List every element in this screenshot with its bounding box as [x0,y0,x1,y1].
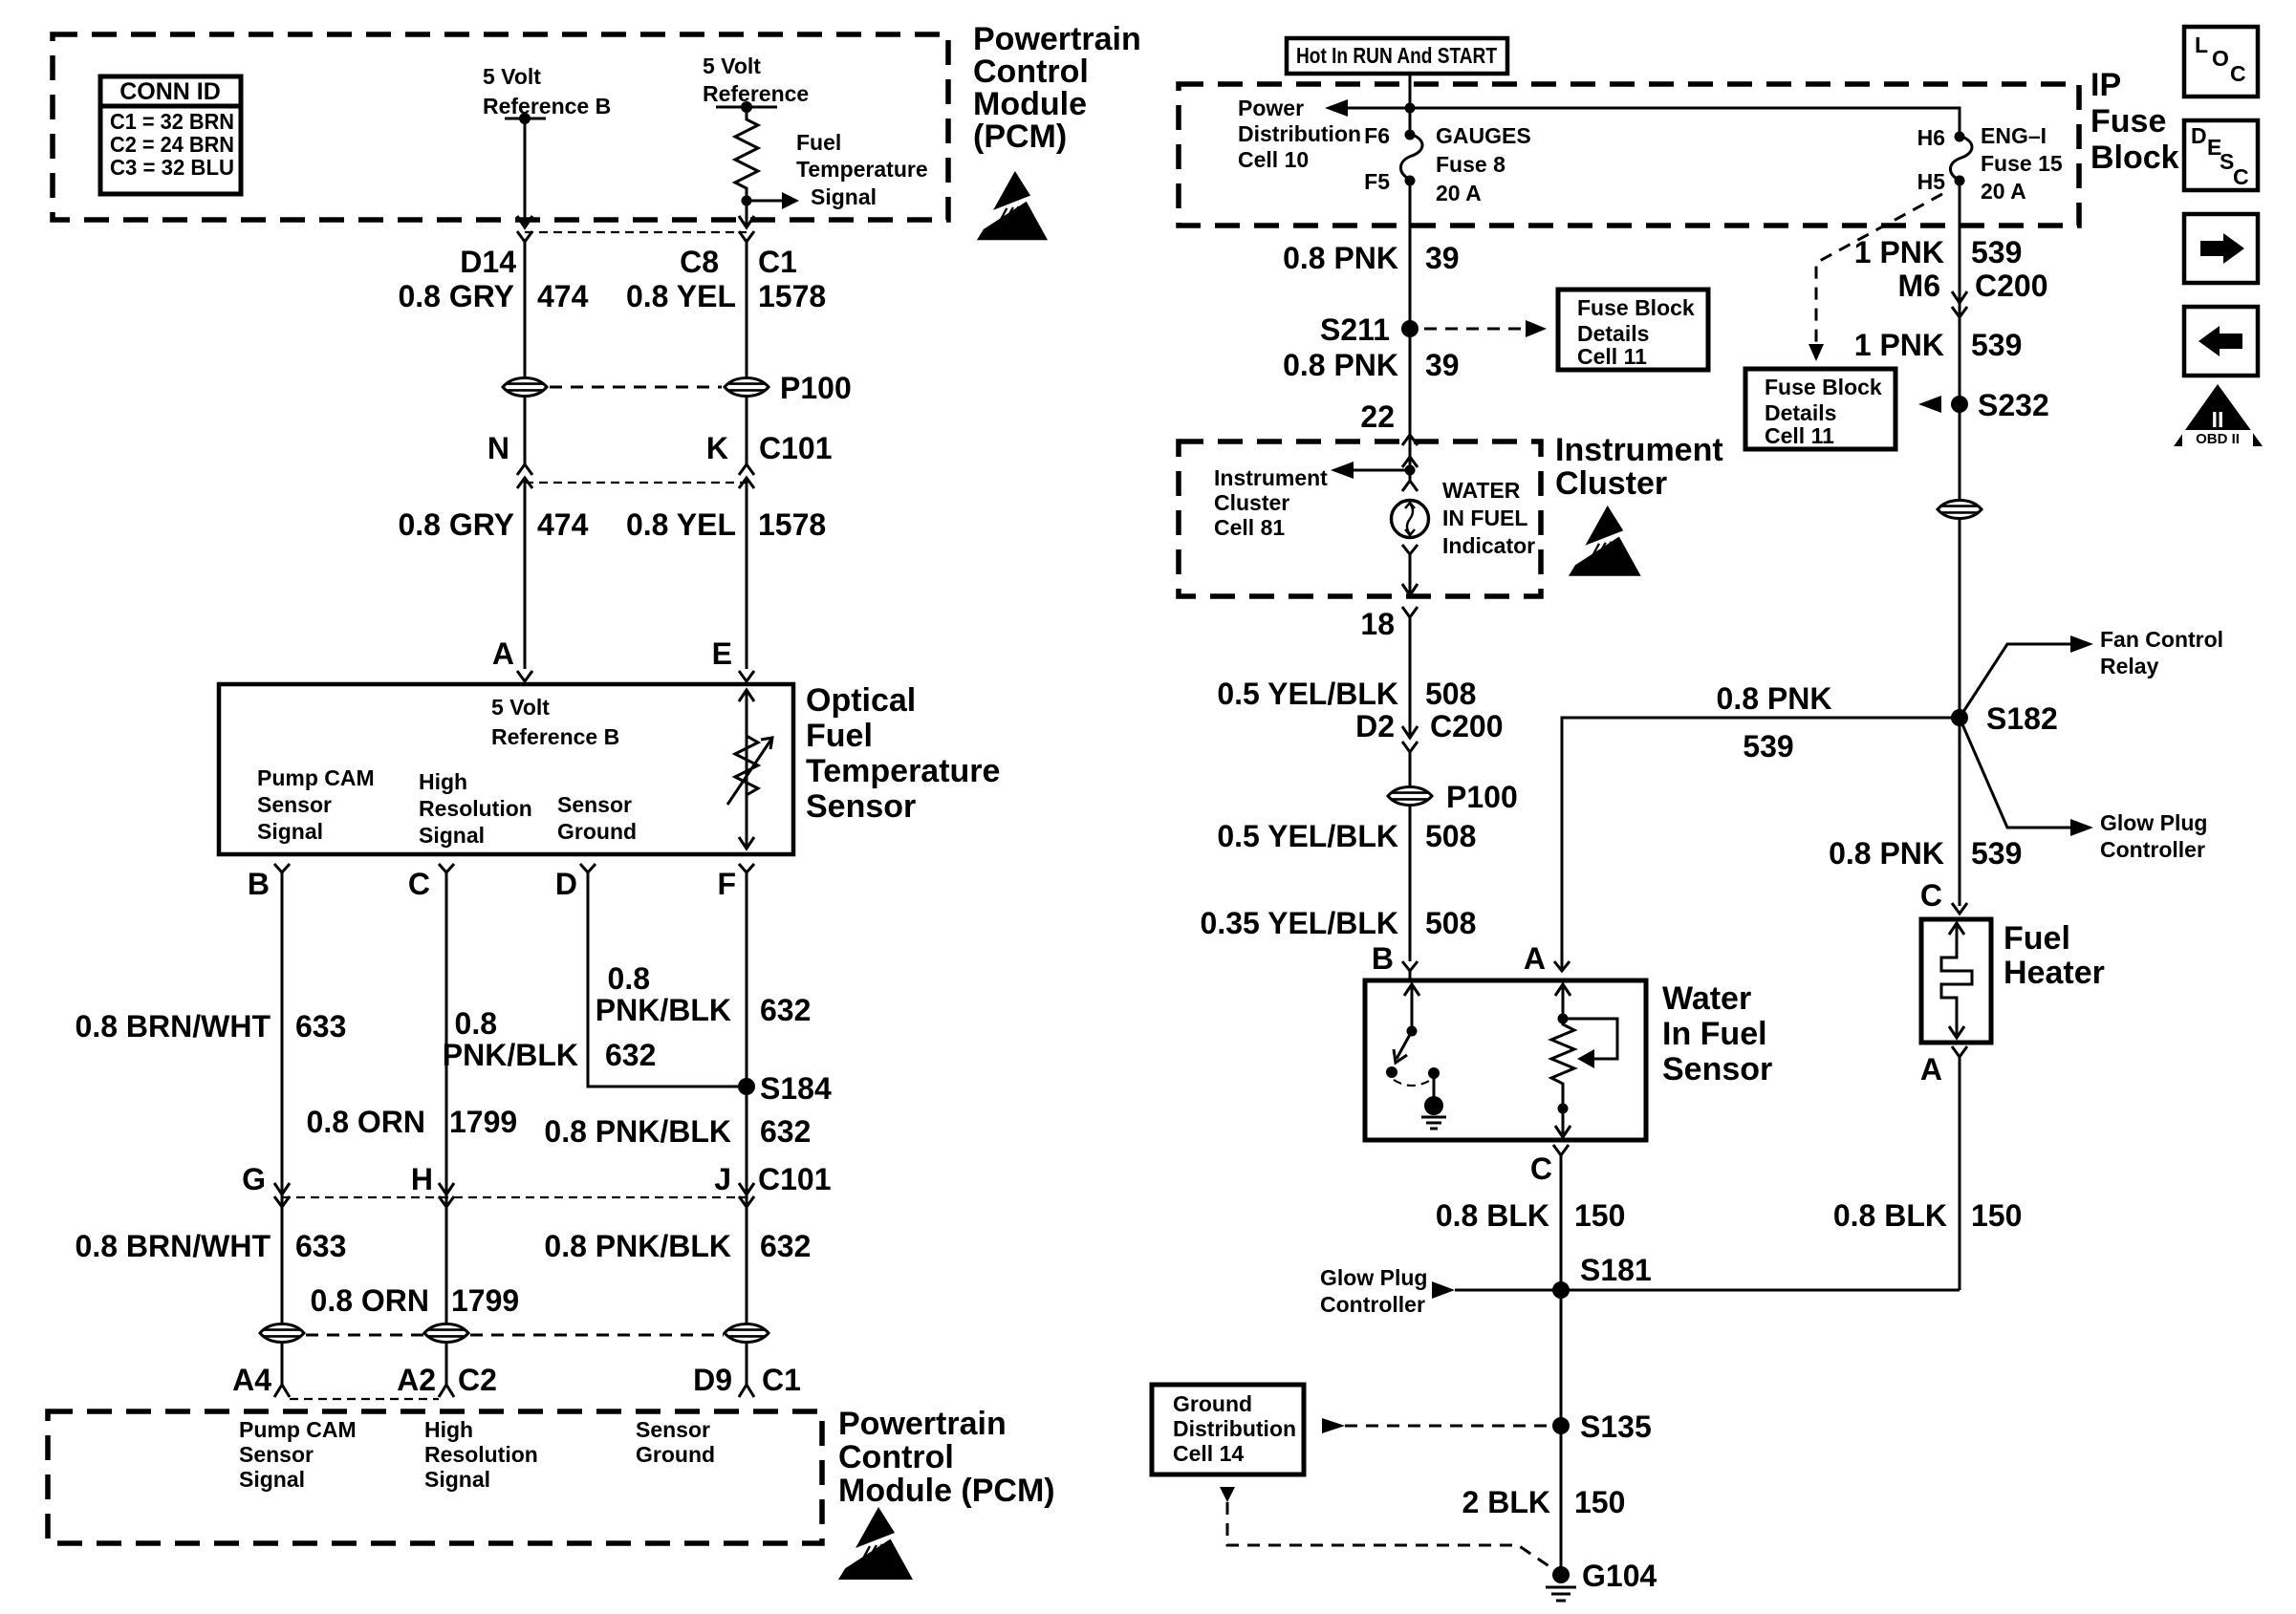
pin C (fuel heater) [1952,903,1967,914]
Fuse Block Details Cell 11 box (1) [1558,290,1708,370]
svg-text:Fan Control: Fan Control [2100,627,2223,652]
connector lens (PNK) [1938,501,1982,519]
svg-text:5 Volt: 5 Volt [491,695,550,720]
connector C101 pins N/K [517,464,532,475]
splice S181 [1552,1281,1570,1299]
svg-text:Details: Details [1577,321,1649,346]
svg-text:N: N [487,431,509,465]
ground distribution dashed drop [1220,1487,1235,1502]
svg-text:Signal: Signal [424,1467,490,1492]
svg-text:II: II [2212,407,2224,432]
connector lens A4 [260,1324,304,1343]
svg-text:High: High [419,769,467,794]
svg-text:539: 539 [1971,836,2022,871]
svg-text:Fuse Block: Fuse Block [1577,295,1695,320]
svg-text:Water: Water [1662,980,1751,1017]
svg-text:ENG–I: ENG–I [1981,123,2047,148]
pins A2/C2 [439,1385,454,1397]
svg-text:474: 474 [537,279,589,313]
svg-text:CONN ID: CONN ID [119,78,221,105]
svg-text:539: 539 [1971,328,2022,362]
connector C101 pins G/H/J [274,1183,290,1194]
label: Instrument Cluster Cell 81 [1214,465,1328,540]
svg-text:Fuse 15: Fuse 15 [1981,151,2063,176]
svg-text:20 A: 20 A [1436,181,1482,205]
svg-text:Ground: Ground [1173,1391,1252,1416]
WIF internal sense resistor [1551,984,1617,1137]
svg-text:0.8 GRY: 0.8 GRY [398,507,514,542]
svg-text:A4: A4 [232,1363,271,1397]
svg-text:H6: H6 [1917,125,1945,150]
svg-text:0.8 YEL: 0.8 YEL [626,507,736,542]
svg-text:Signal: Signal [257,819,323,844]
svg-text:39: 39 [1425,241,1460,275]
svg-text:Cell 10: Cell 10 [1238,147,1309,172]
PCM bottom dashed box [48,1411,822,1543]
water in fuel indicator lamp [1392,501,1429,538]
pin 18 [1402,607,1418,617]
svg-text:A: A [492,636,514,671]
svg-text:D9: D9 [693,1363,732,1397]
svg-text:1 PNK: 1 PNK [1854,328,1944,362]
LOC legend box [2184,27,2258,97]
wire: 0.5 YEL/BLK 508 (mid) [1409,805,1412,961]
svg-text:508: 508 [1425,677,1476,711]
svg-text:39: 39 [1425,348,1460,382]
pin A4 [274,1385,290,1397]
svg-text:Sensor: Sensor [806,788,916,825]
arrow to Power Distribution [1325,99,1348,117]
pins D9/C1 [739,1385,754,1397]
svg-text:S181: S181 [1580,1253,1652,1287]
svg-text:C3 = 32 BLU: C3 = 32 BLU [110,155,234,180]
svg-text:IP: IP [2090,67,2121,103]
connector C200 pin M6 [1952,291,1967,303]
instrument cluster big label [1555,432,1723,502]
svg-text:Fuse 8: Fuse 8 [1436,152,1505,177]
resistor: fuel temp sense (in PCM) [735,107,758,227]
wire: YEL to C101 [746,396,748,464]
connector P100 (right) [1388,787,1432,806]
svg-text:0.8: 0.8 [608,961,650,996]
svg-text:Relay: Relay [2100,654,2159,678]
svg-text:C200: C200 [1430,709,1504,743]
svg-text:Details: Details [1765,400,1836,425]
svg-text:Optical: Optical [806,682,916,719]
fuse 15 ENG-I (H6-H5) [1917,123,2063,204]
svg-text:S211: S211 [1320,312,1390,347]
dashed link at PCM pins [290,1398,439,1400]
label: Power Distribution Cell 10 [1238,96,1361,172]
svg-text:J: J [714,1162,731,1196]
svg-text:1799: 1799 [451,1283,519,1318]
svg-text:M6: M6 [1898,269,1940,303]
water in fuel sensor box [1365,980,1646,1140]
dashed arrow to fuse block details [1424,328,1527,331]
svg-text:Fuel: Fuel [806,718,873,754]
svg-text:Distribution: Distribution [1238,121,1361,146]
fuse 8 GAUGES (F6-F5) [1364,123,1531,205]
svg-text:0.8 BRN/WHT: 0.8 BRN/WHT [76,1229,271,1263]
svg-text:P100: P100 [1446,780,1518,814]
splice S135 [1552,1417,1570,1434]
svg-text:Reference B: Reference B [491,724,619,749]
splice S232 [1951,396,1968,413]
wire: 5V ref B inside PCM [524,118,527,227]
svg-text:Signal: Signal [239,1467,305,1492]
svg-text:Cluster: Cluster [1214,490,1289,515]
svg-text:150: 150 [1574,1198,1625,1233]
PCM bottom name label [838,1406,1055,1509]
svg-text:0.8 PNK: 0.8 PNK [1829,836,1944,871]
svg-text:Powertrain: Powertrain [838,1406,1007,1442]
svg-text:1578: 1578 [758,279,826,313]
svg-text:Glow Plug: Glow Plug [2100,810,2207,835]
svg-text:508: 508 [1425,906,1476,940]
wire: 0.8 GRY 474 (upper) [524,242,527,378]
svg-text:WATER: WATER [1442,478,1521,503]
wire: 0.8 PNK 39 (upper) [1409,181,1412,464]
svg-text:Cluster: Cluster [1555,465,1667,502]
svg-text:S135: S135 [1580,1410,1652,1444]
svg-text:Controller: Controller [2100,837,2205,862]
wire: S181 to fuel heater return [1455,1289,1960,1292]
pin F [739,864,754,872]
wire: D sensor ground branch [588,872,738,1087]
WIF sensor name label [1662,980,1772,1087]
wire: hot feed into fuse block [1409,74,1412,135]
svg-text:D: D [2191,123,2207,148]
wire to P100 [1409,752,1412,787]
svg-text:Power: Power [1238,96,1304,120]
wire: C high resolution signal [445,872,448,1324]
fuel heater box [1921,919,1991,1043]
svg-text:508: 508 [1425,819,1476,853]
svg-text:P100: P100 [780,371,852,405]
svg-text:Sensor: Sensor [557,792,632,817]
svg-text:632: 632 [760,1229,811,1263]
label: WATER IN FUEL Indicator [1442,478,1535,558]
pin B (WIF sensor) [1402,961,1418,971]
arrow from Glow Plug Controller [1432,1281,1455,1299]
Hot In RUN And START box [1287,38,1507,74]
svg-text:5 Volt: 5 Volt [483,64,541,89]
svg-text:Reference B: Reference B [483,94,611,118]
svg-text:PNK/BLK: PNK/BLK [443,1038,578,1072]
svg-text:0.8 PNK/BLK: 0.8 PNK/BLK [544,1114,731,1149]
svg-text:K: K [706,431,728,465]
wire: 539 down to S182 [1959,518,1961,906]
junction node on bus [1405,103,1416,114]
ESD symbol (top PCM) [972,171,1048,240]
connector into cluster [1402,435,1418,445]
junction + arrow to Instrument Cluster cell [1405,465,1416,476]
wire: 0.8 BLK 150 (left) [1560,1155,1563,1575]
connector P100 (left pair) [503,378,547,397]
svg-text:20 A: 20 A [1981,179,2026,204]
svg-text:S232: S232 [1978,388,2049,422]
svg-text:Resolution: Resolution [419,796,532,821]
svg-text:C8: C8 [680,245,719,279]
svg-text:C1 = 32 BRN: C1 = 32 BRN [110,109,234,134]
svg-text:A2: A2 [397,1363,436,1397]
WIF internal switch [1386,984,1446,1129]
svg-text:0.8: 0.8 [455,1006,497,1041]
wire: 0.5 YEL/BLK 508 [1409,617,1412,736]
svg-text:E: E [712,636,732,671]
pin C (WIF sensor) [1553,1145,1569,1155]
svg-text:L: L [2195,32,2208,57]
svg-text:0.8 GRY: 0.8 GRY [398,279,514,313]
connector lens A2/C2 [424,1324,468,1343]
svg-text:Block: Block [2090,140,2179,176]
svg-text:A: A [1920,1052,1942,1087]
splice S184 [738,1078,755,1095]
fuel heater name label [2004,920,2105,991]
svg-text:150: 150 [1971,1198,2022,1233]
svg-text:Cell 14: Cell 14 [1173,1441,1244,1466]
wire: 0.8 YEL 1578 (lower) [746,478,748,669]
svg-text:Resolution: Resolution [424,1442,538,1467]
svg-text:B: B [248,867,270,901]
svg-text:Hot In RUN And START: Hot In RUN And START [1296,43,1497,68]
svg-text:5 Volt: 5 Volt [703,54,761,78]
wire: 0.8 YEL 1578 (upper) [746,242,748,378]
svg-text:632: 632 [605,1038,656,1072]
svg-text:Control: Control [973,54,1089,90]
svg-text:Temperature: Temperature [796,157,928,182]
svg-text:O: O [2212,46,2229,71]
svg-text:0.8 YEL: 0.8 YEL [626,279,736,313]
svg-text:F6: F6 [1364,123,1390,148]
node: Fuel Temperature Signal [742,130,928,209]
wire: feed bus to ENG-I fuse [1329,108,1960,135]
wire stubs to PCM pins [281,1342,284,1385]
svg-text:In Fuel: In Fuel [1662,1016,1767,1052]
svg-text:Cell 11: Cell 11 [1577,344,1647,369]
svg-text:D2: D2 [1355,709,1395,743]
svg-text:0.8 BRN/WHT: 0.8 BRN/WHT [76,1009,271,1044]
connector into indicator [1402,481,1418,491]
svg-text:C1: C1 [758,245,797,279]
svg-text:(PCM): (PCM) [973,118,1067,155]
svg-text:22: 22 [1360,399,1395,434]
svg-text:Sensor: Sensor [1662,1051,1772,1087]
dashed arrow to S135 [1322,1418,1345,1433]
optical fuel temperature sensor box [219,684,793,854]
svg-text:Controller: Controller [1320,1292,1425,1317]
svg-text:0.8 ORN: 0.8 ORN [311,1283,429,1318]
CONN ID table [100,76,241,194]
wire: 1 PNK 539 (ENG-I fuse output) [1959,181,1961,501]
dashed ref from H5 to details box [1816,194,1942,344]
IP fuse block label [2090,67,2179,176]
svg-text:Instrument: Instrument [1555,432,1723,468]
svg-text:C101: C101 [759,431,833,465]
svg-text:Reference: Reference [703,81,809,106]
svg-text:0.5 YEL/BLK: 0.5 YEL/BLK [1217,819,1398,853]
svg-text:Cell 81: Cell 81 [1214,515,1285,540]
svg-text:H5: H5 [1917,169,1946,194]
svg-text:539: 539 [1971,235,2022,269]
svg-text:C: C [2233,164,2249,189]
PCM label (top right) [973,21,1141,155]
svg-text:C2 = 24 BRN: C2 = 24 BRN [110,132,234,157]
connector C200 pin D2 [1402,726,1418,738]
ESD symbol (cluster) [1564,506,1641,576]
svg-text:0.8 PNK: 0.8 PNK [1283,241,1398,275]
OBD II symbol [2174,384,2263,447]
svg-text:0.35 YEL/BLK: 0.35 YEL/BLK [1201,906,1398,940]
svg-text:474: 474 [537,507,589,542]
IP fuse block dashed box [1179,84,2079,226]
wire: GRY to C101 [524,396,527,464]
svg-text:Fuse Block: Fuse Block [1765,375,1882,399]
Fuse Block Details Cell 11 box (2) [1745,369,1895,449]
svg-text:B: B [1372,941,1394,976]
svg-text:18: 18 [1360,607,1395,641]
svg-text:PNK/BLK: PNK/BLK [596,993,731,1027]
svg-text:Fuse: Fuse [2090,103,2166,140]
instrument cluster dashed box [1179,441,1541,596]
svg-text:GAUGES: GAUGES [1436,123,1531,148]
svg-text:G: G [242,1162,266,1196]
svg-text:633: 633 [295,1229,346,1263]
node: 5 Volt Reference B [483,64,611,124]
0.8 PNK 539 feed to WIF sensor A [1562,718,1960,971]
branch to fan control relay [1960,644,2072,718]
wire: 0.8 GRY 474 (lower) [524,478,527,669]
svg-text:S182: S182 [1986,701,2058,736]
svg-text:Indicator: Indicator [1442,533,1535,558]
svg-text:632: 632 [760,993,811,1027]
svg-text:Ground: Ground [557,819,637,844]
svg-text:Temperature: Temperature [806,753,1000,789]
ground G104 [1546,1559,1657,1601]
svg-text:Heater: Heater [2004,955,2105,991]
svg-text:632: 632 [760,1114,811,1149]
arrow from S232 to details box [1918,396,1941,413]
svg-text:Glow Plug: Glow Plug [1320,1265,1427,1290]
wire into cluster junction [1409,457,1412,481]
svg-text:0.8 BLK: 0.8 BLK [1833,1198,1947,1233]
wire below indicator [1402,545,1418,554]
svg-text:Instrument: Instrument [1214,465,1328,490]
wire: B pump cam signal [281,872,284,1324]
svg-text:Module: Module [973,86,1087,122]
DESC legend box [2184,120,2258,190]
svg-text:F5: F5 [1364,169,1390,194]
svg-text:S184: S184 [760,1071,832,1106]
svg-text:Signal: Signal [419,823,485,848]
svg-text:1578: 1578 [758,507,826,542]
PCM bottom internal labels [239,1417,715,1492]
svg-text:0.8 ORN: 0.8 ORN [307,1105,425,1139]
svg-text:C: C [408,867,430,901]
svg-text:A: A [1524,941,1546,976]
svg-text:C: C [1530,1151,1552,1186]
svg-text:0.8 PNK: 0.8 PNK [1283,348,1398,382]
svg-text:Signal: Signal [811,184,877,209]
ESD symbol (bottom PCM) [834,1507,913,1580]
svg-text:Sensor: Sensor [636,1417,710,1442]
svg-text:Powertrain: Powertrain [973,21,1141,57]
svg-text:D: D [555,867,577,901]
svg-text:633: 633 [295,1009,346,1044]
svg-text:Ground: Ground [636,1442,715,1467]
svg-text:Module (PCM): Module (PCM) [838,1473,1055,1509]
svg-text:G104: G104 [1582,1559,1657,1593]
connector lens D9 [725,1324,769,1343]
svg-text:C200: C200 [1975,269,2048,303]
connector C1 pins D14/C8 (PCM) [517,231,532,242]
svg-text:0.8 PNK/BLK: 0.8 PNK/BLK [544,1229,731,1263]
svg-text:Sensor: Sensor [257,792,332,817]
pin D [580,864,596,872]
svg-text:F: F [717,867,736,901]
svg-text:0.5 YEL/BLK: 0.5 YEL/BLK [1217,677,1398,711]
svg-text:H: H [411,1162,433,1196]
svg-text:0.8 PNK: 0.8 PNK [1717,681,1832,716]
Ground Distribution Cell 14 box [1152,1385,1304,1474]
svg-text:C1: C1 [762,1363,801,1397]
svg-text:IN FUEL: IN FUEL [1442,506,1527,530]
pin A (fuel heater) [1952,1046,1967,1057]
svg-text:539: 539 [1743,729,1793,764]
node: 5 Volt Reference [703,54,809,113]
heater element [1941,923,1972,1038]
svg-text:Fuel: Fuel [2004,920,2070,957]
svg-text:Distribution: Distribution [1173,1416,1296,1441]
branch to glow plug controller [1960,718,2072,828]
PCM top dashed box [53,34,948,220]
svg-text:1799: 1799 [449,1105,517,1139]
svg-text:150: 150 [1574,1485,1625,1519]
sensor internal thermistor element [727,690,772,849]
sensor internal labels [257,695,637,848]
svg-text:OBD II: OBD II [2196,431,2240,447]
splice S182 [1951,709,1968,726]
svg-text:Control: Control [838,1439,954,1475]
sensor name label [806,682,1000,825]
left-arrow legend box [2184,307,2258,376]
svg-text:C101: C101 [758,1162,832,1196]
svg-text:C: C [2230,61,2246,86]
pin A (WIF sensor) [1554,961,1570,971]
svg-text:2 BLK: 2 BLK [1462,1485,1550,1519]
splice S211 [1401,320,1419,337]
svg-text:High: High [424,1417,473,1442]
pin B [274,864,290,872]
svg-text:0.8 BLK: 0.8 BLK [1436,1198,1549,1233]
svg-text:Pump CAM: Pump CAM [239,1417,357,1442]
svg-text:Pump CAM: Pump CAM [257,765,375,790]
svg-text:C2: C2 [458,1363,497,1397]
svg-text:D14: D14 [460,245,516,279]
wire: F sensor ground [746,872,748,1324]
right-arrow legend box [2184,214,2258,283]
svg-text:Cell 11: Cell 11 [1765,423,1834,448]
dashed link between lenses [306,1334,423,1337]
svg-text:C: C [1920,878,1942,913]
svg-text:Sensor: Sensor [239,1442,314,1467]
wire: 0.8 BLK 150 (right) [1959,1057,1961,1290]
pin C [439,864,454,872]
svg-text:1 PNK: 1 PNK [1854,235,1944,269]
svg-text:Fuel: Fuel [796,130,841,155]
